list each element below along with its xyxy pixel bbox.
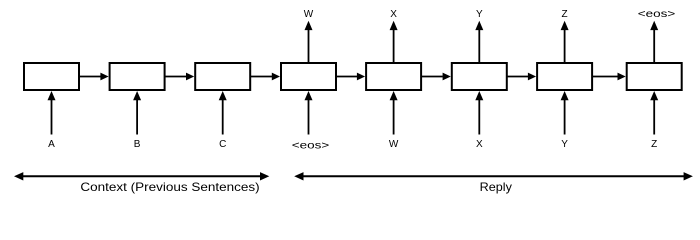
svg-text:A: A xyxy=(48,139,55,150)
svg-text:B: B xyxy=(134,139,141,150)
svg-text:W: W xyxy=(304,9,314,20)
svg-text:Y: Y xyxy=(476,9,483,20)
svg-text:Reply: Reply xyxy=(480,180,512,194)
svg-text:Z: Z xyxy=(651,139,657,150)
svg-text:W: W xyxy=(389,139,399,150)
svg-text:X: X xyxy=(476,139,483,150)
svg-text:<eos>: <eos> xyxy=(638,9,676,20)
svg-text:Z: Z xyxy=(562,9,568,20)
svg-text:C: C xyxy=(219,139,226,150)
svg-text:X: X xyxy=(390,9,397,20)
svg-text:Context (Previous Sentences): Context (Previous Sentences) xyxy=(80,180,259,194)
svg-text:<eos>: <eos> xyxy=(292,140,330,151)
svg-text:Y: Y xyxy=(561,139,568,150)
